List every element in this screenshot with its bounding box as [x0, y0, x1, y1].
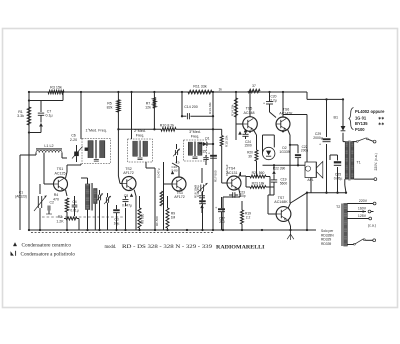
svg-text:2000µ: 2000µ	[313, 136, 323, 140]
tap 160V	[347, 207, 373, 213]
capacitor C17	[215, 197, 225, 230]
speaker AP1	[305, 162, 323, 183]
resistor R1	[17, 107, 31, 125]
svg-text:Freq.: Freq.	[136, 133, 145, 137]
tap 125V	[347, 214, 371, 220]
svg-text:2.2: 2.2	[246, 215, 251, 219]
rotated label C11	[155, 160, 218, 230]
node B1	[325, 98, 344, 119]
switch T2 bottom	[347, 239, 375, 245]
transistor TS5	[236, 107, 284, 133]
resistor R4	[53, 193, 69, 230]
model text	[105, 245, 213, 250]
svg-text:R14 15k: R14 15k	[231, 104, 235, 116]
wire vertical x81 to 1st IF	[80, 92, 82, 139]
transistor TS7	[268, 195, 291, 221]
wire TS6 collector down	[288, 130, 291, 203]
wire TS6 collector to speaker feed	[283, 115, 307, 118]
svg-text:1.2K: 1.2K	[56, 219, 64, 223]
svg-text:1G339: 1G339	[279, 150, 289, 154]
resistor R16 series	[248, 84, 260, 93]
junction dots bus bottom	[28, 229, 308, 231]
wire vertical x131 IF2 feed	[131, 92, 133, 139]
resistor R3	[48, 85, 64, 93]
tuning capacitor C1	[15, 184, 46, 230]
svg-text:0.047µ: 0.047µ	[157, 168, 161, 178]
svg-text:39: 39	[248, 154, 252, 158]
svg-text:RADIOMARELLI: RADIOMARELLI	[216, 244, 265, 250]
wire TS1 collector	[66, 164, 82, 179]
svg-text:200: 200	[219, 220, 225, 224]
legend ceramic	[13, 243, 71, 249]
wire vertical x283 TS6	[282, 92, 284, 117]
svg-text:B1: B1	[333, 116, 338, 120]
svg-text:1k: 1k	[219, 88, 223, 92]
svg-text:2.2µ: 2.2µ	[270, 99, 277, 103]
trimmer C3	[96, 190, 103, 230]
antenna coil L1 L2	[20, 144, 67, 230]
capacitor C3el	[113, 205, 120, 230]
wire parallel branch top left	[29, 92, 63, 101]
capacitor C4	[70, 196, 78, 216]
resistor R19	[241, 201, 252, 230]
wire speaker feed vertical	[306, 115, 308, 163]
capacitor C25	[334, 161, 343, 180]
svg-text:Condensatore ceramico: Condensatore ceramico	[22, 244, 72, 249]
mains switch	[353, 138, 377, 143]
IF transformer 1st	[82, 129, 111, 164]
capacitor C19	[270, 174, 287, 195]
resistor R21	[246, 171, 270, 195]
capacitor C15	[200, 149, 209, 165]
oscillator transformer L3 L4	[81, 178, 97, 230]
label Solo per	[321, 229, 334, 246]
junction dots misc	[28, 99, 339, 194]
trimmer C6	[70, 134, 88, 162]
trimmer C5	[104, 193, 111, 230]
svg-text:AF172: AF172	[123, 171, 134, 175]
ground chassis	[287, 230, 294, 240]
IF transformer 2nd	[128, 129, 153, 162]
resistor R8	[138, 196, 145, 230]
capacitor C20	[263, 95, 277, 118]
wire B+ filter vertical x326	[326, 99, 328, 192]
wire bottom common bus	[29, 229, 316, 231]
svg-text:200µ: 200µ	[301, 149, 308, 153]
svg-text:+: +	[263, 102, 265, 106]
svg-text:160V: 160V	[358, 207, 367, 211]
trimmer C10	[172, 144, 180, 173]
svg-text:AC131: AC131	[227, 171, 238, 175]
svg-text:0.05µ: 0.05µ	[334, 176, 343, 180]
wire vertical x154 R7 branch	[153, 92, 155, 129]
resistor R7	[145, 98, 156, 110]
svg-text:3.3k: 3.3k	[17, 114, 24, 118]
svg-text:∗∗: ∗∗	[378, 122, 384, 126]
svg-text:Freq.: Freq.	[191, 134, 200, 138]
resistor R9	[166, 196, 176, 230]
wire vertical x118 R5 branch	[117, 92, 119, 139]
svg-text:R13-33k: R13-33k	[208, 102, 212, 114]
transistor TS1	[54, 167, 68, 191]
transistor TS3	[164, 163, 187, 199]
svg-text:5600: 5600	[280, 181, 288, 185]
trimmer C2	[46, 201, 54, 215]
wire T1 to C25 node	[345, 179, 347, 194]
wire TS7 emitter	[288, 220, 290, 230]
rectifier diode	[341, 126, 346, 131]
svg-text:R8 680: R8 680	[141, 213, 145, 224]
wire TS2 emitter	[134, 190, 136, 230]
mains bottom wire	[354, 178, 377, 181]
legend polystyrene	[11, 251, 76, 258]
svg-text:(c.a.): (c.a.)	[368, 223, 376, 227]
svg-text:0.047µ: 0.047µ	[122, 204, 132, 208]
volume pot R18	[194, 168, 208, 213]
svg-text:1M: 1M	[171, 215, 176, 219]
capacitor C14	[181, 105, 213, 119]
wire top bus step down	[307, 92, 343, 99]
diode D1	[199, 136, 214, 146]
svg-text:R22 390: R22 390	[273, 167, 286, 171]
svg-text:RD - DS 328 - 328 N - 329 - 33: RD - DS 328 - 328 N - 329 - 339	[122, 245, 213, 250]
svg-text:modd.: modd.	[105, 245, 117, 250]
resistor R10	[160, 123, 176, 131]
tap 220V	[347, 199, 376, 205]
svg-text:2-20: 2-20	[70, 138, 77, 142]
wire top supply bus	[29, 91, 307, 93]
resistor R20	[247, 130, 258, 177]
svg-text:C8: C8	[124, 194, 129, 198]
transformer T1	[345, 141, 361, 181]
capacitor C22	[290, 145, 308, 166]
rectifier options box	[349, 108, 385, 132]
svg-text:AC125: AC125	[55, 171, 66, 175]
resistor R11	[188, 85, 212, 94]
wire speaker to output node	[307, 178, 311, 231]
svg-text:BY135: BY135	[355, 121, 368, 126]
wire TS1 emitter	[66, 190, 68, 196]
wire TS4 collector	[239, 172, 246, 177]
svg-text:(A6123): (A6123)	[15, 195, 27, 199]
wire vertical x213 detector rail	[208, 88, 222, 230]
svg-text:PL4002 oppure: PL4002 oppure	[355, 109, 385, 114]
junction dots bus top	[28, 91, 284, 93]
wire chassis hatch under bus	[31, 232, 213, 234]
resistor R15	[213, 129, 229, 152]
svg-text:AC148K: AC148K	[274, 200, 288, 204]
svg-text:R10 8.2k: R10 8.2k	[160, 123, 175, 127]
capacitor C7	[28, 101, 53, 134]
wire vertical x270 C20	[269, 92, 271, 100]
wire rectifier drop x343	[343, 99, 345, 141]
svg-text:∗∗: ∗∗	[378, 116, 384, 120]
wire AGC rail y129	[118, 128, 213, 130]
resistor R5	[107, 100, 120, 112]
svg-text:R3 15k: R3 15k	[50, 85, 62, 89]
svg-text:125V: 125V	[358, 214, 367, 218]
svg-text:R15 15k: R15 15k	[225, 135, 229, 147]
svg-text:12k: 12k	[145, 106, 151, 110]
svg-text:AP1: AP1	[307, 178, 313, 182]
svg-text:220V. (c.a.): 220V. (c.a.)	[374, 153, 378, 170]
svg-text:AC148: AC148	[244, 111, 255, 115]
label 220V ca rotated	[374, 153, 378, 170]
capacitor C24	[242, 129, 251, 148]
transformer T2	[336, 204, 347, 247]
svg-text:1°Med. Freq.: 1°Med. Freq.	[86, 129, 107, 133]
svg-text:AC142K: AC142K	[279, 112, 293, 116]
gang dashed link	[42, 216, 124, 218]
svg-text:D1: D1	[205, 136, 209, 140]
wire TS4 emitter	[222, 189, 240, 232]
capacitor C12	[196, 185, 206, 230]
svg-text:RF-560: RF-560	[155, 216, 159, 226]
capacitor C8	[122, 194, 133, 230]
svg-text:37: 37	[252, 84, 256, 88]
svg-text:AF172: AF172	[174, 195, 185, 199]
svg-text:+: +	[208, 151, 210, 155]
resistor R22	[273, 165, 286, 174]
wire left rail	[28, 92, 30, 230]
brand RADIOMARELLI	[216, 244, 265, 250]
svg-text:R11 33k: R11 33k	[193, 85, 207, 89]
svg-text:R18 10kB: R18 10kB	[194, 185, 198, 198]
transistor TS2	[118, 139, 136, 191]
wire vertical x182 C14 branch	[181, 92, 183, 116]
capacitor C23	[229, 190, 246, 198]
svg-text:T1: T1	[357, 160, 361, 164]
svg-text:C14 200: C14 200	[184, 105, 198, 109]
svg-text:220V: 220V	[359, 199, 368, 203]
wire IF2 secondary down	[146, 162, 155, 230]
svg-text:+: +	[319, 143, 321, 147]
label ca	[368, 223, 376, 227]
capacitor C29	[313, 132, 330, 147]
svg-text:Condensatore a polistirolo: Condensatore a polistirolo	[21, 252, 76, 257]
IF transformer 3rd	[184, 130, 207, 161]
transistor TS6	[276, 107, 293, 131]
svg-text:0.1µ: 0.1µ	[45, 114, 52, 118]
wire TS7 collector	[288, 193, 307, 208]
svg-text:C2: C2	[50, 201, 55, 205]
svg-text:1500: 1500	[244, 144, 252, 148]
svg-text:RD339: RD339	[321, 242, 331, 246]
wire output horizontal y193	[307, 192, 346, 194]
capacitor C16	[208, 151, 229, 176]
svg-text:1G 01: 1G 01	[355, 115, 367, 120]
svg-text:L1 L2: L1 L2	[44, 144, 53, 148]
svg-text:82k: 82k	[107, 106, 113, 110]
svg-text:+: +	[215, 206, 217, 210]
svg-text:C15: C15	[200, 149, 206, 153]
wire vertical x250 TS5 collector	[249, 92, 251, 117]
wire audio rail y165	[263, 164, 306, 166]
svg-text:P100: P100	[355, 127, 365, 132]
wire vertical x236 bias	[231, 92, 242, 140]
diode D2	[263, 135, 290, 160]
wire C25 column	[330, 155, 338, 193]
resistor R2	[56, 215, 79, 230]
resistor R23	[246, 177, 274, 189]
svg-text:5-80: 5-80	[172, 169, 178, 173]
transistor TS4	[222, 152, 241, 190]
svg-text:R17-560: R17-560	[214, 170, 218, 182]
svg-text:T2: T2	[336, 205, 340, 209]
svg-text:200p: 200p	[238, 194, 245, 198]
